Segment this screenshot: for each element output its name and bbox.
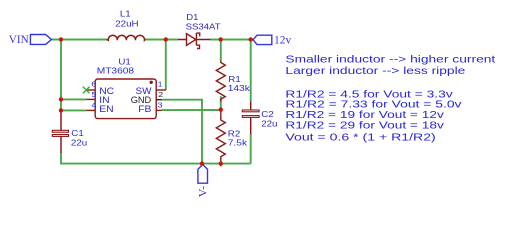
pin 4 EN stub <box>86 109 95 111</box>
svg-text:SS34AT: SS34AT <box>186 22 221 31</box>
junction node VIN/C1 <box>59 37 63 41</box>
wire SW to top junction <box>165 40 167 91</box>
svg-text:U1: U1 <box>118 57 130 66</box>
svg-text:Vout = 0.6 * (1 + R1/R2): Vout = 0.6 * (1 + R1/R2) <box>285 131 435 142</box>
pin 1 SW stub <box>156 89 166 91</box>
svg-text:V-: V- <box>196 186 210 198</box>
svg-text:4: 4 <box>91 101 97 109</box>
notes text block <box>285 53 496 142</box>
wire top rail left: VIN tip to inductor <box>51 39 107 41</box>
junction node 12v/C2 <box>249 37 253 41</box>
junction node inductor/SW <box>164 37 168 41</box>
svg-text:D1: D1 <box>186 12 198 21</box>
pin 3 FB stub <box>156 109 162 111</box>
svg-text:C1: C1 <box>71 129 83 138</box>
pin 6 NC stub <box>86 89 95 91</box>
VIN connector flag <box>30 35 51 45</box>
svg-text:FB: FB <box>138 105 152 115</box>
svg-text:GND: GND <box>131 95 152 105</box>
wire top rail: inductor to diode <box>145 39 178 41</box>
wire R1 bottom to FB junction <box>220 96 222 110</box>
svg-text:5: 5 <box>91 91 97 99</box>
svg-text:6: 6 <box>91 80 97 88</box>
junction node IN rail <box>59 97 63 101</box>
wire top rail: diode to 12v flag <box>210 39 253 41</box>
diode D1 cathode stub <box>196 39 210 41</box>
svg-text:Larger inductor --> less rippl: Larger inductor --> less ripple <box>285 65 465 76</box>
diode D1 triangle <box>187 34 196 46</box>
wire bottom rail <box>61 153 251 164</box>
wire C2 top <box>250 40 252 102</box>
svg-text:R2: R2 <box>228 129 240 138</box>
svg-text:R1/R2 = 29 for Vout = 18v: R1/R2 = 29 for Vout = 18v <box>285 119 443 131</box>
capacitor C2 stubs <box>250 102 252 135</box>
svg-text:7.5k: 7.5k <box>228 138 248 147</box>
pin 2 GND stub (black) <box>156 99 162 101</box>
junction node FB/R1/R2 <box>219 108 223 112</box>
junction node GND rail <box>200 161 204 165</box>
wire GND pin to bottom rail <box>162 100 202 164</box>
IC U1 body <box>95 79 156 119</box>
wire FB pin to R1/R2 junction <box>162 109 221 111</box>
svg-text:12v: 12v <box>274 35 292 47</box>
svg-text:L1: L1 <box>120 9 131 18</box>
wire left rail down from VIN junction <box>60 40 62 112</box>
junction node EN rail <box>59 108 63 112</box>
svg-text:R1: R1 <box>228 75 240 84</box>
12v connector flag <box>253 35 272 44</box>
diode D1 anode stub <box>178 39 187 41</box>
svg-text:EN: EN <box>99 105 113 115</box>
svg-text:22u: 22u <box>261 119 277 128</box>
svg-text:3: 3 <box>158 101 164 109</box>
wire EN pin <box>61 109 86 111</box>
resistor R2 <box>216 110 225 167</box>
wire R1 top <box>220 40 222 61</box>
junction node R2 rail <box>219 161 223 165</box>
ground connector flag V- <box>198 165 208 184</box>
junction node diode/R1 <box>219 37 223 41</box>
svg-text:22u: 22u <box>71 138 87 147</box>
inductor L1 <box>107 35 146 40</box>
wire IN pin <box>61 98 86 100</box>
IC U1 pin-1 dot <box>150 81 153 84</box>
svg-text:22uH: 22uH <box>115 19 138 28</box>
capacitor C2 plates <box>242 110 259 112</box>
capacitor C1 plates <box>52 130 68 132</box>
svg-text:1: 1 <box>158 80 164 88</box>
wire C2 bottom <box>250 134 252 163</box>
resistor R1 <box>216 61 225 102</box>
capacitor C1 stubs <box>60 111 62 153</box>
svg-text:VIN: VIN <box>9 34 29 46</box>
svg-text:MT3608: MT3608 <box>97 66 134 75</box>
svg-text:Smaller inductor --> higher cu: Smaller inductor --> higher current <box>285 53 496 64</box>
svg-text:2: 2 <box>158 91 163 99</box>
svg-text:143k: 143k <box>228 84 250 93</box>
pin 5 IN stub <box>86 98 95 100</box>
svg-text:C2: C2 <box>261 110 273 119</box>
diode D1 schottky cathode bar <box>196 33 199 49</box>
no-connect X on pin 6 <box>83 87 90 94</box>
